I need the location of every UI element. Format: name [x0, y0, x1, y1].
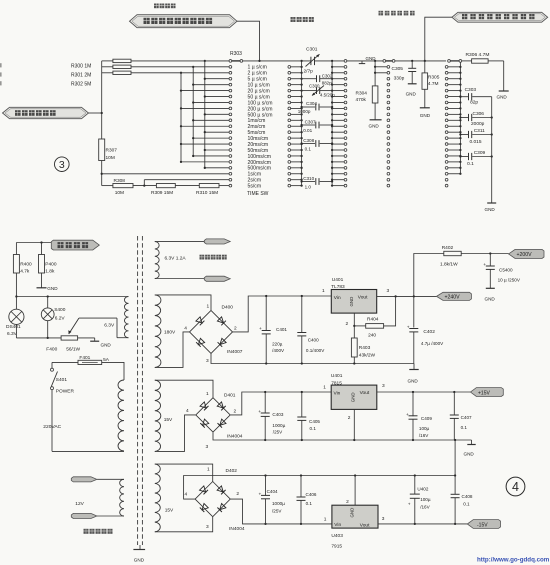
svg-text:U401: U401	[331, 373, 343, 379]
svg-text:/16V: /16V	[420, 504, 430, 509]
wire D400 output to +rail	[233, 296, 332, 332]
svg-text:1: 1	[206, 391, 209, 397]
svg-text:0.1: 0.1	[305, 146, 312, 151]
svg-text:2: 2	[234, 408, 237, 414]
capacitor C402 4.7u/400V	[407, 296, 444, 363]
svg-text:GND: GND	[485, 207, 496, 212]
svg-text:R302 5M: R302 5M	[71, 81, 91, 87]
svg-text:12V: 12V	[75, 501, 84, 507]
svg-text:C405: C405	[309, 419, 320, 424]
capacitor C308 0.1	[300, 138, 333, 152]
svg-text:/16V: /16V	[419, 433, 429, 438]
svg-text:2000p: 2000p	[471, 121, 485, 127]
svg-text:10M: 10M	[106, 155, 115, 161]
svg-text:POWER: POWER	[56, 388, 75, 394]
svg-text:56/1W: 56/1W	[66, 347, 80, 353]
svg-text:C309: C309	[474, 150, 486, 156]
svg-text:+: +	[259, 327, 262, 332]
svg-text:4: 4	[185, 492, 188, 498]
capacitor C310 1.0	[300, 176, 333, 189]
potentiometer P400 1.8k	[39, 243, 57, 288]
svg-text:882p: 882p	[322, 80, 332, 85]
capacitor C406 0.1	[297, 476, 317, 524]
svg-text:F400: F400	[46, 347, 57, 353]
wire S401 to F401	[52, 362, 78, 368]
timing range labels	[248, 65, 273, 190]
wires wafer1 right contacts to cap bus	[291, 66, 303, 187]
wire 7915 output	[378, 523, 467, 525]
svg-text:R305: R305	[428, 75, 440, 81]
svg-text:Vin: Vin	[334, 390, 341, 396]
svg-text:C400: C400	[308, 338, 319, 343]
svg-text:GND: GND	[351, 392, 356, 402]
wire TL783 adjust pin 2	[353, 313, 366, 327]
switch contact pair wafer2 on main line	[383, 60, 395, 63]
svg-text:R300 1M: R300 1M	[71, 63, 91, 69]
svg-text:GND: GND	[408, 379, 419, 384]
ground of lamp circuit	[90, 338, 111, 348]
label 电源变压器 (power transformer)	[84, 529, 113, 534]
flag: 释抑电路跟随器输入 (hold-off follower input)	[452, 12, 548, 22]
svg-text:1.8k: 1.8k	[45, 269, 55, 275]
svg-text:C409: C409	[421, 416, 432, 421]
label 6.3V 1.2A 示波管灯丝	[165, 255, 227, 262]
wire left edge scan marks	[0, 63, 2, 85]
svg-text:C301: C301	[306, 47, 318, 53]
svg-text:IN4004: IN4004	[229, 526, 245, 532]
svg-text:D401: D401	[224, 392, 236, 398]
svg-text:TIME SW: TIME SW	[247, 191, 269, 197]
wire D402 gnd rail	[184, 474, 456, 499]
svg-text:Vin: Vin	[334, 522, 341, 528]
svg-text:+: +	[408, 502, 411, 507]
capacitor C303 82p	[459, 87, 491, 106]
svg-text:1: 1	[207, 467, 210, 473]
flag: 电源触发 (power trigger)	[51, 240, 99, 250]
svg-text:F401: F401	[79, 355, 90, 361]
svg-text:GND: GND	[350, 508, 355, 518]
svg-text:GND: GND	[369, 124, 380, 129]
ground under R304	[369, 120, 382, 129]
svg-text:0.1: 0.1	[463, 502, 470, 507]
transformer winding 6.3V 1.2A CRT filament	[155, 242, 205, 279]
svg-text:7915: 7915	[331, 544, 342, 550]
svg-text:GND: GND	[485, 297, 496, 302]
ground end of 15V rail	[464, 440, 476, 457]
svg-text:0.1: 0.1	[310, 426, 317, 431]
svg-text:R402: R402	[442, 245, 454, 251]
wire left bus	[101, 61, 113, 139]
svg-text:4.7µ /400V: 4.7µ /400V	[421, 341, 444, 346]
resistor R302 5M	[71, 71, 131, 87]
wire 1s row from R307	[102, 173, 229, 175]
svg-text:C402: C402	[423, 329, 435, 335]
ground right of R306	[497, 91, 509, 100]
rheostat F400 56/1W	[46, 318, 94, 352]
svg-text:GND: GND	[420, 113, 431, 118]
regulator U401 TL783	[322, 277, 390, 327]
svg-text:4.7M: 4.7M	[428, 81, 439, 87]
svg-text:+15V: +15V	[478, 391, 490, 397]
svg-text:C302: C302	[322, 74, 333, 79]
svg-text:2: 2	[346, 321, 349, 327]
svg-text:C5400: C5400	[499, 267, 513, 272]
capacitor C311 0.015	[459, 128, 493, 145]
wire bus C (x5 values)	[204, 60, 229, 169]
ground on timing line	[359, 56, 376, 64]
wire main timing line	[131, 60, 472, 62]
svg-text:+240V: +240V	[445, 295, 461, 301]
wire F401 to primary winding	[102, 362, 124, 380]
svg-text:R303: R303	[230, 51, 242, 57]
flag: 定时电路跟随器输入 (timing follower input)	[130, 15, 238, 28]
svg-text:Vout: Vout	[358, 295, 368, 301]
svg-text:100µ: 100µ	[419, 426, 430, 431]
svg-text:/400V: /400V	[272, 348, 285, 353]
svg-text:2: 2	[346, 499, 349, 505]
svg-text:R306 4.7M: R306 4.7M	[466, 52, 490, 58]
svg-text:5s/cm: 5s/cm	[248, 184, 262, 190]
svg-text:C311: C311	[474, 128, 485, 134]
svg-text:1: 1	[324, 517, 327, 523]
wire cap bus 2	[331, 61, 333, 187]
circled number 4	[506, 477, 525, 496]
svg-text:GND: GND	[349, 297, 354, 307]
svg-text:3: 3	[387, 288, 390, 294]
switch contact R303 on main line	[229, 51, 243, 62]
switch wafer 1 left contacts (TIME SW)	[229, 65, 232, 186]
svg-text:3: 3	[206, 444, 209, 450]
svg-text:C401: C401	[276, 327, 287, 332]
capacitor C304 1000p	[298, 101, 334, 114]
svg-text:C303: C303	[465, 87, 477, 93]
svg-text:240: 240	[368, 333, 376, 339]
transformer core	[138, 236, 143, 549]
svg-text:0.1: 0.1	[306, 501, 313, 506]
transformer primary winding 220V	[118, 380, 124, 451]
capacitor C5400 10u/250V	[483, 254, 521, 289]
svg-text:+200V: +200V	[517, 252, 533, 258]
svg-text:220VAC: 220VAC	[43, 424, 61, 430]
flag +240V	[437, 292, 472, 300]
wires cap bus 2 to wafer 2 contacts	[332, 67, 344, 186]
svg-text:100µ: 100µ	[420, 497, 431, 502]
capacitor C407 0.1	[450, 392, 472, 440]
svg-text:/25V: /25V	[272, 508, 282, 513]
svg-text:6.2V: 6.2V	[55, 315, 66, 321]
svg-text:R308: R308	[114, 178, 126, 184]
svg-text:-15V: -15V	[477, 523, 488, 529]
svg-text:C404: C404	[267, 489, 278, 494]
svg-text:0.01: 0.01	[303, 128, 312, 133]
svg-text:C403: C403	[272, 412, 283, 417]
wire R301 row to 1us contact	[131, 66, 229, 68]
flag 12V output b	[71, 513, 97, 518]
svg-text:15V: 15V	[165, 507, 174, 513]
resistor R300 1M	[71, 59, 131, 69]
wire F400 wiper to filament winding	[79, 318, 129, 338]
wire lamp return line	[16, 337, 61, 339]
capacitor C408 0.1	[451, 476, 473, 524]
svg-text:R403: R403	[359, 345, 371, 351]
fuse F401 5A	[78, 355, 110, 365]
switch contact pair before R306	[448, 60, 462, 63]
capacitor U402 100u/16V	[408, 476, 431, 524]
svg-text:GND: GND	[134, 558, 145, 563]
flag: 自举电容正极 (bootstrap cap positive)	[3, 107, 102, 118]
wires wafer 3 contacts to hold-off bus	[448, 66, 462, 175]
svg-text:Vout: Vout	[360, 390, 370, 396]
svg-text:43k/2W: 43k/2W	[359, 353, 376, 359]
svg-text:C308: C308	[303, 138, 314, 143]
switch wafer 2 top contact	[344, 60, 347, 63]
label 定时电容 (timing capacitors)	[291, 17, 314, 22]
svg-text:C408: C408	[462, 494, 473, 499]
wire R302 row to 2us contact	[131, 72, 229, 74]
svg-text:U401: U401	[332, 277, 344, 283]
wire trigger line	[16, 241, 53, 243]
capacitor C305 330p	[392, 61, 417, 84]
wire 7815 output	[377, 391, 471, 393]
svg-text:3: 3	[382, 383, 385, 389]
flag +15V	[470, 388, 503, 397]
capacitor C309 0.1	[459, 150, 493, 167]
svg-text:IN4007: IN4007	[227, 349, 243, 355]
wire 15V winding to D401	[155, 380, 213, 451]
lamp DS401 6.3V	[6, 297, 24, 338]
ground end of 180V return rail	[408, 364, 419, 384]
svg-text:R404: R404	[367, 317, 379, 323]
regulator U401 7815	[323, 373, 385, 421]
svg-text:Vin: Vin	[334, 295, 341, 301]
svg-text:1000µ: 1000µ	[272, 501, 285, 506]
svg-text:4.7k: 4.7k	[20, 269, 30, 275]
resistor R304 470k	[356, 61, 388, 120]
ground under C5400	[485, 288, 496, 301]
wire 15V winding to D402	[155, 464, 213, 532]
capacitor C306 2000p	[459, 111, 493, 127]
svg-text:2: 2	[234, 325, 237, 331]
flag -15V	[467, 520, 500, 529]
wire bus B (x1 values)	[192, 66, 229, 157]
svg-text:GND: GND	[464, 452, 475, 457]
wire rail to upper gnd rail	[454, 440, 456, 477]
svg-text:GND: GND	[47, 286, 58, 291]
svg-text:C306: C306	[473, 111, 485, 117]
flag CRT filament b	[204, 276, 230, 281]
svg-text:0.1/400V: 0.1/400V	[306, 348, 325, 353]
svg-text:C305: C305	[392, 66, 404, 72]
svg-text:82p: 82p	[470, 100, 478, 106]
ground of hold-off caps	[485, 203, 497, 212]
svg-text:GND: GND	[406, 92, 417, 97]
svg-text:S401: S401	[56, 377, 68, 383]
svg-text:10M: 10M	[115, 190, 124, 196]
svg-text:470k: 470k	[356, 97, 367, 103]
flag 12V output a	[71, 477, 97, 482]
capacitor C400 0.1/400V	[297, 295, 325, 364]
svg-text:R307: R307	[106, 148, 118, 154]
svg-text:Vout: Vout	[360, 522, 370, 528]
svg-text:1000µ: 1000µ	[272, 423, 285, 428]
transformer winding 6.3V lamps	[124, 297, 128, 338]
bridge rectifier D402	[185, 467, 245, 532]
capacitor C405 0.1	[297, 391, 320, 440]
svg-text:4: 4	[186, 408, 189, 414]
svg-text:D402: D402	[226, 468, 238, 474]
svg-text:3: 3	[206, 524, 209, 530]
ground of transformer core	[133, 550, 145, 563]
svg-text:1000p: 1000p	[298, 109, 311, 114]
transformer winding 180V	[155, 295, 176, 368]
svg-text:3: 3	[382, 516, 385, 522]
svg-text:330p: 330p	[394, 75, 405, 81]
wire riser to R402	[414, 254, 444, 297]
svg-text:U402: U402	[417, 486, 428, 491]
svg-text:2: 2	[236, 491, 239, 497]
resistor R309 15M	[151, 184, 199, 196]
svg-text:R304: R304	[356, 91, 368, 97]
svg-text:3: 3	[206, 358, 209, 364]
wire flag to timing node	[237, 21, 260, 61]
resistor R308 10M	[102, 178, 157, 196]
resistor R307 10M	[99, 139, 118, 186]
svg-text:1: 1	[207, 304, 210, 310]
resistor R403 43k/2W	[351, 326, 375, 364]
capacitor C403 1000u/25V	[258, 391, 285, 440]
svg-text:/25V: /25V	[273, 429, 283, 434]
svg-text:2: 2	[348, 415, 351, 421]
transformer winding 15V lower	[155, 464, 174, 532]
switch wafer 1 right contacts	[288, 65, 291, 186]
svg-text:C300: C300	[309, 84, 320, 89]
svg-text:6.3V: 6.3V	[7, 331, 18, 337]
wire D402 negative output	[230, 499, 332, 525]
wire D400 return rail	[211, 353, 414, 364]
svg-text:10 µ /250V: 10 µ /250V	[498, 278, 521, 283]
svg-text:C304: C304	[306, 101, 317, 106]
svg-text:0.1: 0.1	[467, 161, 474, 167]
variable capacitor C300 4.5/20p	[302, 84, 336, 98]
resistor R400 4.7k	[13, 243, 32, 297]
label 定时电阻 (timing resistor)	[154, 4, 176, 9]
svg-text:15V: 15V	[164, 417, 173, 423]
wire D401 output to 7815	[230, 392, 331, 415]
wire 15V return rail	[213, 432, 472, 441]
switch S401 POWER	[51, 368, 75, 394]
label 释抑电阻电容 (hold-off RC)	[379, 11, 415, 16]
svg-text:4: 4	[184, 325, 187, 331]
svg-text:DS401: DS401	[6, 324, 21, 330]
wire flag to hold-off node	[425, 17, 452, 61]
svg-text:IN4004: IN4004	[227, 433, 243, 439]
resistor R301 2M	[71, 65, 131, 78]
svg-text:180V: 180V	[164, 330, 176, 336]
svg-text:2/7p: 2/7p	[304, 68, 314, 74]
wire R306 to ground	[503, 61, 505, 91]
wire 180V winding to D400	[155, 295, 211, 368]
resistor R310 15M	[196, 184, 229, 196]
svg-text:R309 15M: R309 15M	[151, 190, 173, 196]
circled number 3	[55, 157, 70, 172]
svg-text:0.015: 0.015	[470, 139, 482, 145]
wire TL783 output	[377, 295, 437, 297]
svg-text:R400: R400	[20, 261, 32, 267]
capacitor C404 1000u/25V	[259, 476, 286, 524]
svg-text:1.0: 1.0	[305, 184, 312, 189]
resistor R306 4.7M	[466, 52, 504, 63]
wire 7815 pin2 to rail	[353, 409, 355, 440]
transformer winding 15V upper	[155, 380, 173, 451]
svg-text:GND: GND	[101, 343, 112, 348]
transformer winding 12V	[75, 479, 124, 516]
svg-text:D400: D400	[222, 304, 234, 310]
svg-text:1.8k/1W: 1.8k/1W	[440, 262, 458, 268]
variable capacitor C301 2/7p	[304, 47, 320, 75]
lamp S400 6.2V	[41, 297, 65, 338]
svg-text:1: 1	[323, 385, 326, 391]
svg-text:C407: C407	[461, 415, 472, 420]
flag +200V	[509, 249, 544, 258]
capacitor C409 100u/16V	[406, 392, 432, 440]
switch wafer 2 middle contacts	[387, 65, 390, 186]
svg-text:C406: C406	[306, 492, 317, 497]
ground under C305	[406, 84, 417, 97]
svg-text:S400: S400	[54, 307, 66, 313]
capacitor C302 882p	[302, 74, 333, 86]
switch wafer 3 contacts	[445, 65, 448, 186]
resistor R402 1.8k/1W	[440, 245, 509, 268]
bridge rectifier D400	[184, 304, 243, 364]
svg-text:U403: U403	[331, 533, 343, 539]
resistor R305 4.7M	[422, 61, 440, 108]
bridge rectifier D401	[186, 391, 243, 450]
svg-text:3: 3	[59, 159, 65, 171]
svg-text:GND: GND	[366, 56, 377, 61]
wire 2s row riser	[144, 180, 229, 186]
svg-text:220µ: 220µ	[272, 342, 283, 347]
svg-text:6.3V 1.2A: 6.3V 1.2A	[165, 256, 187, 262]
svg-text:R301 2M: R301 2M	[71, 73, 91, 79]
flag CRT filament a	[204, 239, 230, 244]
svg-text:C307: C307	[305, 119, 316, 124]
wire lamp supply line	[15, 295, 128, 297]
wire hold-off cap return bus	[491, 97, 493, 203]
svg-text:4.5/20p: 4.5/20p	[320, 93, 335, 98]
svg-text:C310: C310	[303, 176, 314, 181]
capacitor C307 0.01	[300, 119, 333, 133]
wire bus A (x2 values)	[180, 72, 229, 163]
svg-text:0.1: 0.1	[461, 425, 468, 430]
wire 220VAC input	[43, 390, 124, 452]
svg-text:1: 1	[322, 288, 325, 294]
wire hold-off bus	[459, 62, 461, 174]
svg-text:P400: P400	[45, 261, 57, 267]
svg-text:R310 15M: R310 15M	[196, 190, 218, 196]
ground under P400	[37, 286, 59, 291]
ground under R305	[420, 108, 431, 118]
svg-text:4: 4	[512, 480, 519, 494]
resistor R404 240	[366, 296, 396, 338]
svg-text:http://www.go-gddq.com: http://www.go-gddq.com	[477, 557, 550, 564]
capacitor C401 220u/400V	[259, 295, 287, 364]
wire cap bus 1	[301, 61, 303, 186]
svg-text:6.3V: 6.3V	[104, 323, 115, 329]
regulator U403 7915	[324, 476, 385, 550]
svg-text:GND: GND	[497, 95, 508, 100]
switch wafer 2 left contacts	[344, 65, 347, 186]
